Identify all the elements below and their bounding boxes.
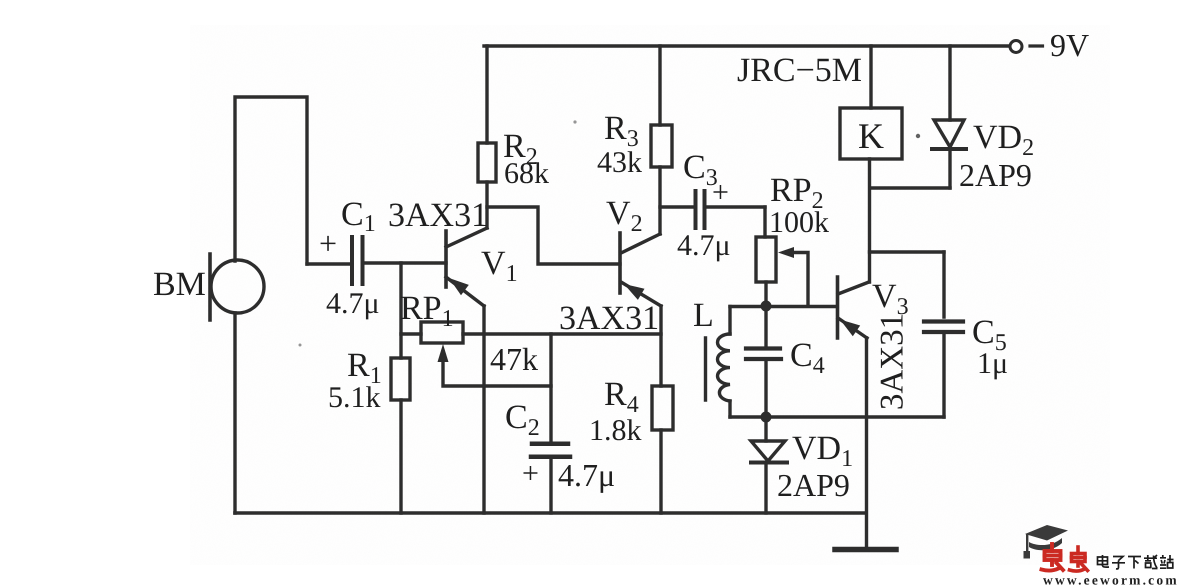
svg-text:+: + (522, 457, 539, 490)
svg-text:4.7μ: 4.7μ (326, 287, 380, 320)
svg-text:K: K (858, 116, 884, 156)
svg-text:1.8k: 1.8k (589, 414, 642, 447)
svg-text:100k: 100k (769, 206, 829, 239)
svg-text:4.7μ: 4.7μ (558, 457, 615, 493)
svg-text:2AP9: 2AP9 (959, 157, 1032, 193)
svg-text:JRC−5M: JRC−5M (737, 52, 862, 89)
svg-text:1μ: 1μ (977, 347, 1008, 380)
svg-text:3AX31: 3AX31 (875, 313, 911, 410)
svg-text:L: L (693, 297, 714, 334)
svg-text:3AX31: 3AX31 (559, 300, 659, 337)
svg-text:43k: 43k (597, 146, 642, 179)
svg-text:9V: 9V (1050, 27, 1089, 63)
svg-text:3AX31: 3AX31 (388, 197, 488, 234)
svg-text:4.7μ: 4.7μ (677, 229, 731, 262)
svg-text:68k: 68k (504, 157, 549, 190)
svg-text:+: + (712, 176, 729, 209)
svg-text:47k: 47k (490, 341, 538, 377)
svg-text:BM: BM (153, 266, 206, 303)
svg-text:www.eeworm.com: www.eeworm.com (1043, 573, 1177, 585)
svg-text:2AP9: 2AP9 (777, 467, 850, 503)
svg-text:+: + (319, 225, 337, 261)
svg-text:5.1k: 5.1k (328, 381, 381, 414)
